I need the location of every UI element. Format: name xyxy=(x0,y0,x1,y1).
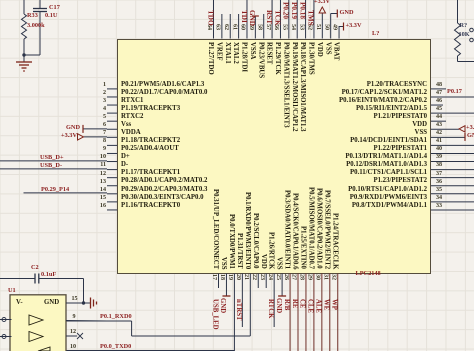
wire U1 pin 15 to earth ground xyxy=(66,302,91,304)
wire U1 input A with bubble xyxy=(0,318,12,322)
resistor R33 3.000k xyxy=(22,14,27,39)
wire to resistor R33 top xyxy=(23,0,25,14)
U1 pin number 9 xyxy=(73,314,76,320)
wire R33 bottom to ground node xyxy=(23,39,25,62)
wire net P0.17 from pin 47 (drawn in stub group) xyxy=(0,0,1,1)
top red net labels TDO TDI GND RST TCK P0.20 P0.19 P0.18 TMS xyxy=(206,10,213,26)
wire P0.1_RXD0 from U1 pin 9 to U2 pin 21 xyxy=(66,321,250,336)
net label GND at pin 18 (vertical) xyxy=(218,298,225,313)
junction node R33/C17 xyxy=(22,53,25,56)
GND power port at pin 50 VSS xyxy=(331,10,338,18)
wire group: U2 bottom pin stubs 17-32 xyxy=(219,274,338,351)
label inductor L? designator xyxy=(372,31,379,37)
net label GND at pin 50 xyxy=(340,10,354,16)
wire P0.0_TXD0 from U1 pin 10 to U2 pin 19 xyxy=(66,350,234,351)
+3.3V power port at pin 49 VBAT via inductor L? xyxy=(339,23,343,31)
U2 bottom pin name labels 17-32 (vertical, bottom-aligned) xyxy=(211,189,218,269)
earth ground symbol at U1 pin 15 xyxy=(91,298,97,309)
+3.3V power port at U2 pin 7 VDDA xyxy=(78,134,108,140)
buffer gate 3 inside U1 partial xyxy=(38,347,50,351)
wire USB_D+ to pin 10 xyxy=(0,160,107,162)
label U2 part name LPC2148 xyxy=(356,271,381,277)
net label +3.3V at pin 51 xyxy=(314,0,330,5)
buffer gate 2 inside U1 xyxy=(29,332,43,342)
net label USB_D+ xyxy=(40,155,64,161)
label C17 value 0.1U xyxy=(45,13,57,19)
U1 pin number 10 xyxy=(70,344,76,350)
wire U1 pin 9 output xyxy=(66,320,107,323)
wire group: U2 top pin stubs 64-49 xyxy=(214,0,340,39)
label capacitor C17 designator xyxy=(49,5,60,11)
U1 pin number 12 xyxy=(70,329,76,335)
wire P0.29_P14 to pin 14 xyxy=(24,192,108,194)
net label P0.17 at pin 47 xyxy=(447,89,462,95)
+3.3V power port at pin 51 VDD xyxy=(319,7,325,13)
U2 top pin numbers 64-49 (vertical) xyxy=(206,24,212,30)
U1 pin label V- xyxy=(16,300,23,307)
IC U2 LPC2148 microcontroller body xyxy=(117,39,431,274)
wire group: U2 left pin stubs 1-16 xyxy=(107,89,117,210)
resistor R? 10K pull-up top right xyxy=(455,0,474,62)
net label GND at pin 42 (clipped) xyxy=(467,133,474,139)
U2 top pin name labels 64-49 (vertical) xyxy=(206,42,213,75)
U1 pin 12 stub with no-connect cross xyxy=(66,333,83,339)
net label +3.3V at pin 7 xyxy=(61,133,77,139)
label C2 value 0.1uF xyxy=(41,272,56,278)
buffer gate 1 inside U1 xyxy=(29,315,43,325)
U2 right pin name labels 48-33 xyxy=(292,82,427,89)
label R? value 10K xyxy=(459,32,470,38)
+3.3V power port at pin 43 VDD xyxy=(459,126,465,132)
IC U1 component body xyxy=(10,295,66,351)
junction node C2 to U1 pin 15 xyxy=(82,301,85,304)
bottom red net labels USB_LED nTRST RTCK R/B RE CE CLE ALE WE WP xyxy=(211,299,218,330)
net label USB_D- xyxy=(40,163,62,169)
net label P0.0_TXD0 xyxy=(100,344,131,350)
GND power port at pin 18 VSS xyxy=(222,295,230,297)
wire group: U2 right pin stubs and wires 48-33 xyxy=(431,89,474,210)
label U1 designator xyxy=(8,288,16,294)
net label P0.29_P14 xyxy=(41,187,69,193)
net label +3.3V at pin 49 xyxy=(346,23,362,29)
net label P0.1_RXD0 xyxy=(100,314,132,320)
capacitor C17 0.1U xyxy=(24,0,47,55)
label R33 value 3.000k xyxy=(27,23,45,29)
U1 pin number 15 xyxy=(72,296,78,302)
U2 left pin numbers 1-16 xyxy=(92,82,106,88)
wire U1 input B with bubble xyxy=(0,335,12,339)
label capacitor C2 designator xyxy=(31,265,39,271)
GND power port at pin 42 VSS xyxy=(464,133,466,141)
capacitor C2 0.1uF with wires xyxy=(0,274,84,304)
label resistor R33 designator xyxy=(27,13,38,19)
label resistor R? designator xyxy=(460,23,468,29)
U1 pin label GND xyxy=(44,300,59,307)
U2 right pin numbers 48-33 xyxy=(436,82,442,88)
GND power port bar at pin 59 VSSA xyxy=(252,15,259,17)
net label +3.3V at pin 43 (clipped) xyxy=(466,125,474,131)
net label GND at pin 25 (vertical) xyxy=(274,298,281,313)
U2 left pin name labels 1-16 xyxy=(121,82,204,89)
GND power port at U2 pin 6 Vss xyxy=(83,125,107,133)
GND power port at pin 25 VSS xyxy=(278,295,286,297)
wire USB_D- to pin 11 xyxy=(0,168,107,170)
U2 bottom pin numbers 17-32 (vertical) xyxy=(211,274,217,280)
ground symbol below R33/C17 xyxy=(16,62,32,71)
net label GND at pin 6 xyxy=(66,125,80,131)
